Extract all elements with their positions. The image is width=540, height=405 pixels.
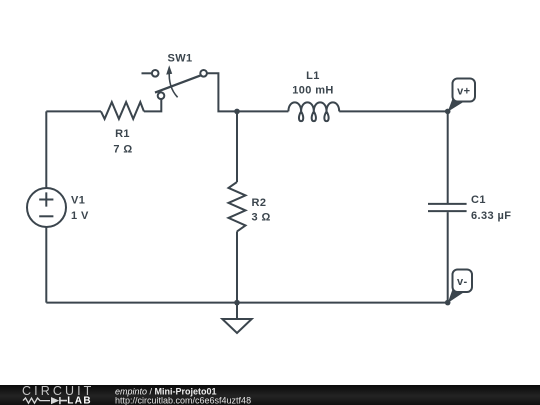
wire bottom horizontal [46, 302, 447, 304]
V1 minus sign [39, 215, 53, 217]
svg-text:1 V: 1 V [71, 210, 89, 222]
wire R2 to bottom [236, 231, 238, 302]
svg-text:V1: V1 [71, 194, 85, 206]
node v- dot [445, 300, 451, 306]
wire left vertical [45, 111, 47, 302]
svg-text:C1: C1 [471, 194, 486, 206]
svg-text:R1: R1 [115, 128, 130, 140]
capacitor C1 top plate [428, 203, 467, 205]
resistor R2 [229, 182, 246, 231]
node v- tag box [453, 270, 473, 293]
wire R1 to switch pole [144, 99, 161, 112]
resistor R1 [101, 102, 144, 119]
junction dot top [234, 109, 240, 115]
junction dot bottom [234, 300, 240, 306]
logo diode bar [60, 397, 67, 404]
node v+ tag tail [448, 96, 465, 112]
wire throw to junction [207, 73, 237, 111]
svg-text:7 Ω: 7 Ω [113, 144, 132, 156]
capacitor C1 bottom plate [428, 210, 467, 212]
wire ground stub [236, 303, 238, 319]
svg-text:LAB: LAB [67, 395, 92, 405]
svg-text:v+: v+ [457, 86, 470, 98]
wire top-left horizontal [46, 110, 101, 112]
svg-text:L1: L1 [306, 70, 320, 82]
logo diode [51, 397, 59, 404]
logo zigzag wire [23, 398, 50, 403]
svg-text:R2: R2 [252, 197, 267, 209]
node v+ tag box [453, 79, 476, 102]
switch SW1 actuation arrow arc [169, 71, 177, 98]
wire stub unused throw [142, 72, 153, 74]
V1 plus sign [39, 192, 53, 206]
switch SW1 right throw circle [200, 70, 207, 77]
node v+ dot [445, 109, 451, 115]
switch SW1 blade [155, 75, 201, 92]
switch SW1 arrow head [166, 65, 172, 74]
voltage source V1 [27, 188, 66, 227]
wire right vertical top [447, 111, 449, 203]
svg-text:v-: v- [457, 276, 468, 288]
wire L1 to node v+ [339, 110, 448, 112]
ground symbol [222, 319, 251, 333]
footer bar [0, 385, 540, 405]
switch SW1 pole circle [158, 92, 165, 99]
switch SW1 left throw circle [152, 70, 159, 77]
svg-text:SW1: SW1 [167, 53, 192, 65]
wire right vertical bottom [447, 212, 449, 303]
svg-text:100 mH: 100 mH [292, 85, 334, 97]
wire junction to R2 [236, 111, 238, 182]
node v- tag tail [448, 287, 465, 304]
wire junction to L1 [237, 110, 288, 112]
svg-text:http://circuitlab.com/c6e6sf4u: http://circuitlab.com/c6e6sf4uztf48 [115, 396, 251, 405]
svg-text:3 Ω: 3 Ω [252, 212, 271, 224]
inductor L1 [288, 102, 339, 121]
svg-text:6.33 µF: 6.33 µF [471, 210, 511, 222]
